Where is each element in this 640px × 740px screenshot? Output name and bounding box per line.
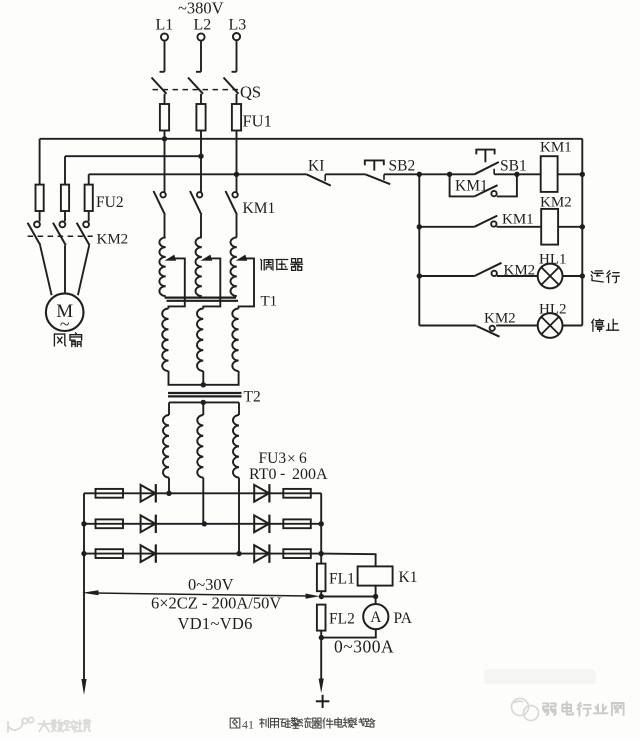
T2 secondary top bus [169, 401, 239, 403]
wire FU2 to KM2 contact [64, 211, 66, 221]
svg-text:FU1: FU1 [243, 112, 272, 131]
contactor coil KM1 [541, 156, 558, 192]
svg-text:200A: 200A [292, 466, 328, 483]
fuse FU3 row 1 right [283, 489, 311, 498]
ammeter PA [363, 604, 388, 629]
control node column wire [418, 174, 420, 325]
svg-text:HL2: HL2 [539, 302, 567, 318]
wire to KM1 coil [517, 173, 541, 175]
diode VD row 3 left [141, 545, 156, 562]
pushbutton SB1 (start, NO) [476, 150, 494, 155]
svg-text:~380V: ~380V [178, 0, 224, 18]
wire bus2 to FU2-2 [64, 156, 66, 184]
diode VD row 2 left [141, 515, 156, 532]
junction SB1 out [514, 172, 519, 177]
aux contact KM2 (NO, rung4) [477, 326, 500, 337]
contactor KM2 main contact [60, 222, 66, 228]
contactor coil KM2 [541, 209, 558, 245]
wire bus3 to FU2-3 [88, 174, 90, 184]
wire HL1 to right bus [563, 275, 583, 277]
switch QS pole 3 [232, 71, 237, 73]
svg-text:0~300A: 0~300A [334, 637, 394, 657]
caption 图41 利用硅整流器件电镀线路 [230, 718, 240, 728]
svg-text:L1: L1 [156, 17, 174, 34]
T2 core [168, 392, 242, 394]
svg-text:VD1~VD6: VD1~VD6 [178, 614, 253, 633]
T1 wiper arrow and tap wire [201, 255, 213, 261]
fuse FL1 [317, 564, 326, 592]
svg-text:×: × [287, 451, 296, 468]
junction L1-bus1 [162, 136, 167, 141]
transformer T1 winding 3 [230, 237, 236, 296]
wire rung2 [419, 226, 474, 228]
transformer T2 primary winding 2 [197, 309, 203, 372]
wire L2 to QS [200, 41, 202, 72]
fuse FU3 row 3 right [283, 549, 311, 558]
svg-text:KM2: KM2 [97, 232, 129, 248]
junction row3-phase3 [236, 551, 241, 556]
diode VD row 1 right [254, 485, 269, 502]
watermark text 弱电行业网 [543, 703, 555, 715]
junction right bus rung2 [580, 224, 585, 229]
motor M (fan) [46, 293, 84, 331]
junction right bus row2 [319, 521, 324, 526]
junction K1/PA node [373, 594, 378, 599]
lamp HL1 [538, 264, 563, 289]
svg-text:FU2: FU2 [96, 194, 124, 211]
positive output wire [320, 638, 322, 680]
svg-text:T2: T2 [244, 389, 261, 406]
wire K1 bottom [375, 586, 377, 597]
wire FU2 to KM2 contact [88, 211, 90, 221]
fuse FU1 pole 3 [232, 104, 241, 131]
wire secondary 2 to rectifier row 2 [202, 478, 204, 524]
fuse FU2 pole 1 [36, 185, 44, 211]
svg-text:FL2: FL2 [329, 611, 355, 628]
wire bus1 to FU2-1 [39, 139, 41, 185]
wire node A to SB1 [419, 173, 474, 175]
fuse FU1 pole 2 [196, 104, 205, 131]
contactor KM2 main contact [83, 222, 89, 228]
aux contact KM1 (NO, rung2) [474, 216, 497, 227]
contactor KM1 main contact 1 [160, 192, 165, 197]
transformer T2 secondary winding 2 [202, 402, 204, 415]
wire FU2 to KM2 contact [39, 211, 41, 221]
junction node A [417, 172, 422, 177]
fuse FU2 pole 3 [85, 185, 93, 211]
wire secondary 3 to rectifier row 3 [238, 478, 240, 554]
wire KM2-3 to motor [78, 245, 89, 295]
junction FL2/PA bottom [319, 635, 324, 640]
label fan (风扇) [54, 334, 65, 346]
svg-text:~: ~ [60, 314, 70, 334]
contactor KM1 main contact 3 [232, 192, 237, 197]
lamp HL2 [538, 313, 563, 338]
wire rung3 [419, 275, 474, 277]
svg-text:RT0: RT0 [249, 466, 276, 483]
fuse FU1 pole 1 [160, 104, 169, 131]
switch QS pole 2 [196, 71, 201, 73]
svg-text:K1: K1 [399, 569, 418, 586]
relay K1 coil [358, 566, 393, 585]
svg-text:41: 41 [242, 718, 254, 732]
T1 wiper arrow and tap wire [236, 255, 248, 261]
junction left bus row2 [81, 521, 86, 526]
wire L3 to QS [236, 41, 238, 72]
svg-text:KM2: KM2 [504, 263, 536, 279]
svg-text:QS: QS [240, 83, 261, 102]
svg-text:KM1: KM1 [243, 200, 276, 217]
svg-text:SB2: SB2 [389, 158, 416, 175]
wire fuse to bus [200, 131, 202, 157]
transformer T1 winding 1 [159, 237, 165, 296]
wire rung4 [419, 325, 476, 327]
fuse FU3 row 1 left [96, 489, 124, 498]
transformer T1 winding 2 [195, 237, 201, 296]
right control bus [581, 139, 583, 326]
svg-text:KM1: KM1 [502, 212, 534, 228]
transformer T2 primary winding 3 [232, 309, 238, 372]
wire rectifier row 2 [84, 523, 321, 525]
wire L1 to QS [164, 41, 166, 72]
svg-text:0~30V: 0~30V [188, 575, 234, 594]
junction right bus row3 [319, 551, 324, 556]
wire fuse to bus [164, 131, 166, 139]
junction right bus rung3 [580, 273, 585, 278]
svg-text:HL1: HL1 [539, 252, 567, 268]
KM2 linkage dashed [28, 235, 93, 237]
relay contact KI (NO) [307, 174, 331, 185]
svg-text:L2: L2 [194, 17, 212, 34]
junction L2-bus2 [198, 154, 203, 159]
junction right bus rung1 [580, 172, 585, 177]
svg-text:L3: L3 [229, 17, 247, 34]
svg-text:FL1: FL1 [329, 571, 355, 588]
wire rectifier row 3 [84, 553, 321, 555]
svg-text:PA: PA [394, 610, 413, 627]
pushbutton SB2 (stop, NC) [365, 160, 384, 165]
label stop (停止) [592, 319, 604, 331]
contactor KM1 main contact 2 [197, 192, 202, 197]
terminal L3 [233, 33, 240, 40]
junction T2 primary star point [201, 382, 206, 387]
wire FL2 bottom [320, 631, 322, 638]
svg-text:-: - [280, 465, 285, 482]
transformer T2 secondary winding 1 [168, 402, 170, 415]
junction FL1/FL2 node [319, 594, 324, 599]
svg-text:SB1: SB1 [500, 158, 527, 175]
fuse FU3 row 2 left [96, 519, 124, 528]
wire L2 down [200, 156, 202, 192]
watermark smudge [484, 669, 596, 684]
svg-text:KM2: KM2 [484, 311, 516, 327]
wire fuse to bus [236, 131, 238, 175]
svg-text:6×2CZ - 200A/50V: 6×2CZ - 200A/50V [151, 594, 281, 613]
wire L3 down [236, 174, 238, 192]
T2 primary star bus [169, 371, 239, 385]
label T1 regulator (调压器) [261, 260, 273, 271]
T1 wiper arrow and tap wire [165, 255, 177, 261]
svg-text:A: A [370, 609, 382, 626]
wire FL1 to node [320, 591, 322, 596]
wire PA top [375, 597, 377, 605]
wire KM2 coil to right bus [558, 226, 582, 228]
junction left bus row3 [81, 551, 86, 556]
label running (运行) [591, 271, 603, 282]
dimension line 0~30V with arrows [95, 593, 308, 596]
bus wire 1 (L1 feeder) [40, 138, 583, 140]
contactor KM2 main contact [34, 222, 40, 228]
wire rectifier row 1 [84, 492, 321, 494]
junction node rung2 [417, 224, 422, 229]
svg-text:KM2: KM2 [540, 195, 572, 211]
svg-text:KM1: KM1 [540, 140, 572, 156]
junction row1-phase1 [166, 491, 171, 496]
positive output bus (right) [320, 493, 322, 563]
watermark logo (bottom right) [512, 699, 539, 721]
wire PA bottom [321, 629, 375, 637]
junction L3-bus3 [234, 172, 239, 177]
fuse FU3 row 2 right [283, 519, 311, 528]
wire node to FL2 node [321, 596, 375, 598]
wire KM2-1 to motor [40, 245, 52, 295]
T1 core [165, 297, 237, 299]
wire L1 down [164, 139, 166, 192]
aux contact KM2 (NC, rung3) [475, 263, 502, 276]
diode VD row 3 right [254, 545, 269, 562]
watermark text 大数跨境 [38, 721, 50, 732]
wire KM2-2 to motor [64, 245, 66, 293]
fuse FU3 row 3 left [96, 549, 124, 558]
transformer T2 primary winding 1 [162, 309, 168, 372]
diode VD row 2 right [254, 515, 269, 532]
svg-text:T1: T1 [261, 294, 278, 310]
wire K1 branch top [321, 554, 375, 567]
svg-text:KM1: KM1 [455, 178, 488, 195]
transformer T2 secondary winding 3 [238, 402, 240, 415]
wire HL2 to right bus [563, 325, 583, 327]
svg-text:KI: KI [308, 158, 324, 175]
positive terminal + [316, 700, 330, 702]
fuse FL2 [317, 605, 326, 631]
bus wire 3 (L3 feeder / control line) [89, 173, 307, 175]
terminal L2 [197, 33, 204, 40]
wire secondary 1 to rectifier row 1 [168, 478, 170, 494]
negative output bus (left) [83, 493, 85, 681]
wire KM1 coil to right bus [558, 173, 583, 175]
QS linkage dashed [153, 89, 242, 91]
terminal L1 [161, 33, 168, 40]
positive output arrow [319, 679, 324, 694]
junction self-hold tap [447, 172, 452, 177]
switch QS pole 1 [160, 71, 165, 73]
svg-text:6: 6 [299, 450, 307, 467]
junction row2-phase2 [202, 521, 207, 526]
self-hold contact KM1 (NO) [450, 174, 475, 196]
watermark logo (bottom left) [8, 717, 34, 733]
bus wire 2 (L2 feeder) [65, 155, 201, 157]
junction T2 secondary [201, 400, 206, 405]
junction node rung3 [417, 273, 422, 278]
diode VD row 1 left [141, 485, 156, 502]
fuse FU2 pole 2 [61, 185, 69, 211]
negative output arrow [81, 679, 86, 695]
